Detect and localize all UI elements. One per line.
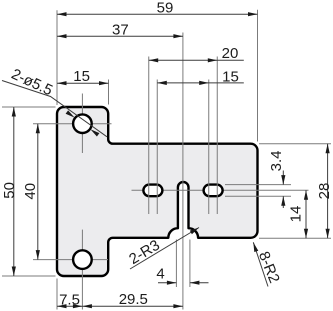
slotted holes common centreline [132, 189, 309, 191]
svg-text:14: 14 [288, 206, 305, 223]
svg-text:7.5: 7.5 [59, 291, 80, 308]
extension line left edge bottom [56, 279, 58, 310]
bottom slot centreline / 37 extension [182, 33, 184, 310]
extension lines 3.4 (slot top/bottom) [225, 184, 291, 186]
dimension 3.4 [282, 171, 284, 185]
extension lines 50 (top/bottom) [2, 106, 56, 108]
dimension 15 (left part width) [57, 82, 109, 84]
extension line step (15) [108, 80, 110, 105]
dimension 28 [327, 144, 329, 239]
hole H1 centrelines [81, 94, 83, 154]
dimension 4 (slot width) [158, 282, 176, 284]
dimension 20 (slot outer arcs) [149, 59, 244, 61]
svg-text:8-R2: 8-R2 [255, 249, 283, 286]
svg-text:4: 4 [156, 265, 164, 282]
svg-text:50: 50 [1, 182, 18, 199]
svg-text:29.5: 29.5 [119, 291, 148, 308]
hole H1 (2-dia5.5) [73, 114, 92, 133]
dimension 37 [57, 35, 183, 37]
hole H2 (2-dia5.5) [73, 250, 92, 269]
extension lines 28/14 (plate top/bottom) [259, 143, 331, 145]
svg-text:15: 15 [73, 68, 90, 85]
slotted hole S1 [143, 185, 162, 197]
extension line left edge top [56, 10, 58, 105]
svg-text:28: 28 [316, 183, 333, 200]
svg-text:37: 37 [112, 22, 129, 39]
dimension 50 [13, 107, 15, 276]
svg-text:3.4: 3.4 [268, 150, 285, 171]
extension lines 4 (slot edges) [175, 240, 177, 288]
dimension 40 [37, 124, 39, 260]
dimension 29.5 [82, 305, 182, 307]
svg-text:15: 15 [222, 68, 239, 85]
hole H2 centrelines [81, 230, 83, 310]
leader 2-dia5.5 [2, 81, 107, 137]
svg-text:2-ø5.5: 2-ø5.5 [9, 66, 55, 100]
dimension 14 [305, 190, 307, 238]
svg-text:20: 20 [222, 45, 239, 62]
extension lines slot arc centres [148, 57, 150, 215]
extension line right edge [257, 10, 259, 142]
leader 8-R2 [253, 242, 268, 286]
svg-text:59: 59 [157, 0, 174, 17]
slotted hole S2 [204, 185, 223, 197]
leader 2-R3 [130, 228, 199, 270]
dimension 59 [57, 13, 258, 15]
dimension 15 (slot inner arcs) [157, 82, 244, 84]
svg-text:40: 40 [22, 183, 39, 200]
part outline [57, 107, 258, 276]
svg-text:2-R3: 2-R3 [126, 237, 163, 268]
dimension 7.5 [57, 305, 82, 307]
